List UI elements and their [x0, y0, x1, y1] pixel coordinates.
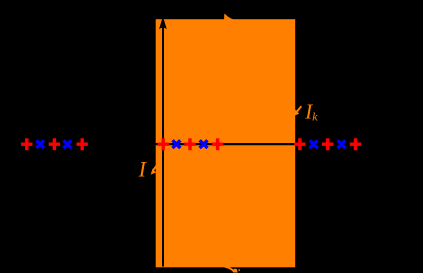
left group: pole marker + at 54.4 [49, 138, 60, 150]
orange half-strip region [156, 19, 296, 267]
imaginary axis arrowhead [159, 17, 167, 30]
right group: zero marker x at 313.7 [310, 140, 318, 148]
center group: pole marker + at 217.6 [212, 138, 223, 150]
left group: zero marker x at 67.4 [64, 140, 72, 148]
real axis (horizontal line) [155, 143, 390, 145]
arrow from label I_k [297, 106, 302, 112]
left group: pole marker + at 82.2 [77, 138, 88, 150]
contour arrow on top edge (pointing right) [224, 14, 234, 20]
center group: pole marker + at 163.2 [158, 138, 169, 150]
right group: pole marker + at 327.7 [322, 138, 333, 150]
imaginary axis (vertical line) [162, 26, 164, 267]
center group: zero marker x at 203.6 [200, 140, 208, 148]
right group: zero marker x at 341.5 [338, 140, 346, 148]
right group: pole marker + at 355.5 [350, 138, 361, 150]
arrow from interval label I [153, 164, 158, 170]
left group: pole marker + at 26.8 [21, 138, 32, 150]
center group: zero marker x at 176.4 [173, 140, 181, 148]
center group: pole marker + at 190.0 [184, 138, 195, 150]
right group: pole marker + at 299.9 [294, 138, 305, 150]
svg-text:k: k [312, 109, 318, 123]
contour arrow on bottom edge (pointing left) [225, 267, 234, 272]
left group: zero marker x at 40.2 [36, 140, 44, 148]
